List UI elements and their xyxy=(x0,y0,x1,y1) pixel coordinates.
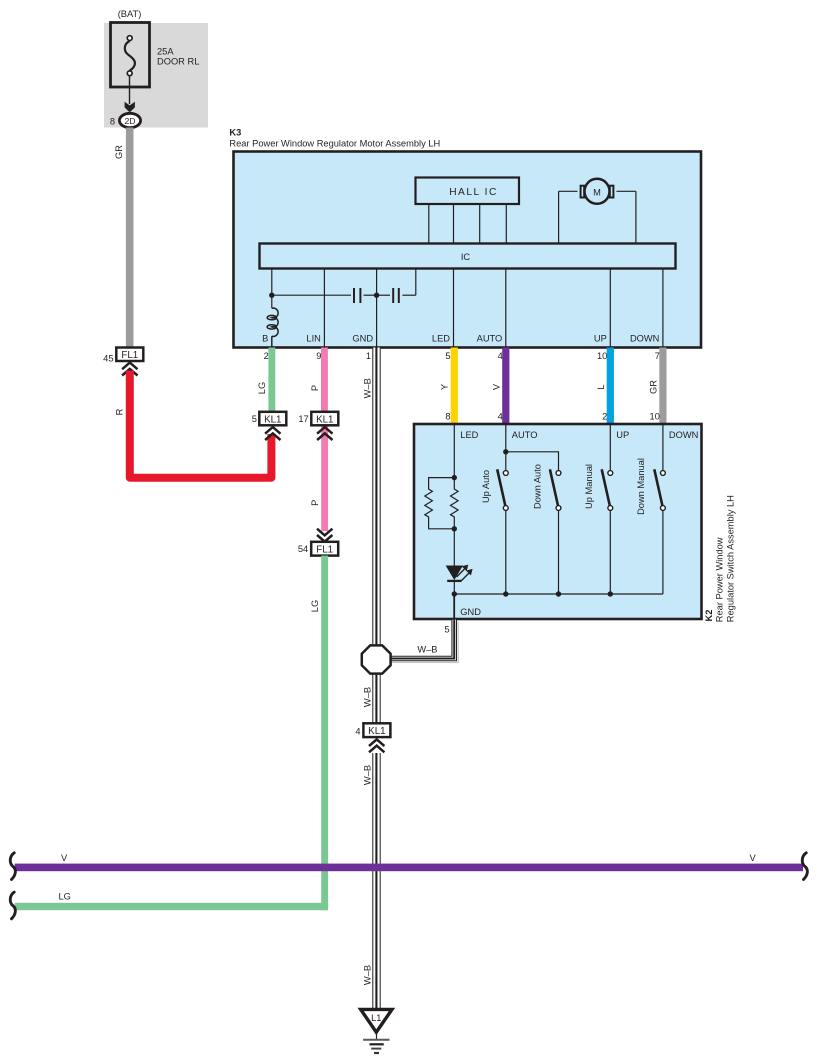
wire Up Manual to bus xyxy=(609,510,611,594)
wire R red xyxy=(130,371,272,478)
wire to Down Auto xyxy=(506,452,559,471)
wire to LED xyxy=(453,529,455,566)
wire LG vertical long xyxy=(321,556,328,911)
switch Up Manual xyxy=(602,469,613,510)
junction dot xyxy=(452,591,457,596)
hall sensor leads xyxy=(429,204,507,244)
wire GR gray stub xyxy=(659,348,666,425)
svg-text:DOWN: DOWN xyxy=(669,430,698,440)
svg-text:Down Auto: Down Auto xyxy=(533,464,543,509)
svg-text:45: 45 xyxy=(103,354,113,364)
junction dot xyxy=(452,526,457,531)
connector KL1 pin 17 xyxy=(298,412,338,426)
svg-text:GND: GND xyxy=(352,334,373,344)
svg-text:17: 17 xyxy=(298,414,308,424)
DOWN branch wire xyxy=(662,424,664,471)
svg-text:V: V xyxy=(750,853,757,863)
fuse 25A DOOR RL xyxy=(111,23,200,88)
wire L blue xyxy=(607,348,614,425)
svg-text:FL1: FL1 xyxy=(316,545,333,556)
HALL IC box xyxy=(416,178,520,205)
UP branch wire xyxy=(609,424,611,471)
junction dot B xyxy=(269,293,274,298)
wire GR gray xyxy=(126,128,134,348)
svg-text:9: 9 xyxy=(316,351,321,361)
svg-text:FL1: FL1 xyxy=(121,350,138,361)
svg-text:Y: Y xyxy=(440,384,450,390)
branch chevrons under KL1 pin5 xyxy=(265,427,280,440)
wire P stub LIN to KL1 xyxy=(321,348,328,413)
LED branch wire xyxy=(453,424,455,478)
svg-text:2: 2 xyxy=(264,351,269,361)
svg-text:P: P xyxy=(310,500,320,506)
svg-text:GR: GR xyxy=(114,145,124,159)
svg-text:4: 4 xyxy=(498,412,503,422)
svg-text:W–B: W–B xyxy=(363,965,373,985)
wire P mid pink xyxy=(321,426,328,531)
svg-text:5: 5 xyxy=(252,414,257,424)
ground L1 xyxy=(361,1009,392,1053)
svg-text:UP: UP xyxy=(594,334,607,344)
break squiggle V left xyxy=(10,853,15,880)
svg-text:DOOR RL: DOOR RL xyxy=(157,56,199,66)
svg-text:UP: UP xyxy=(616,430,629,440)
pin line UP xyxy=(609,269,611,348)
ECU K3 box xyxy=(234,152,702,348)
svg-text:LED: LED xyxy=(460,430,478,440)
ground bus in K2 xyxy=(454,593,663,595)
svg-text:5: 5 xyxy=(445,351,450,361)
branch chevrons under KL1 pin17 xyxy=(317,427,332,440)
svg-text:W–B: W–B xyxy=(363,378,373,398)
svg-text:25A: 25A xyxy=(157,46,174,56)
wire V violet xyxy=(502,348,509,425)
wire LED to bus xyxy=(453,581,455,594)
inductor coil on B line xyxy=(267,308,278,347)
noise filter wire to C1 xyxy=(272,294,351,296)
wire W-B spur K2 to octagon gray shadow xyxy=(392,622,459,663)
svg-text:LG: LG xyxy=(310,600,320,612)
connector 2D xyxy=(119,113,140,127)
pin line LED xyxy=(453,269,455,348)
IC box xyxy=(260,244,676,269)
svg-text:Regulator Switch Assembly LH: Regulator Switch Assembly LH xyxy=(726,495,736,622)
svg-text:Down Manual: Down Manual xyxy=(636,458,646,515)
svg-text:GR: GR xyxy=(648,380,658,394)
wire Down Manual to bus xyxy=(662,510,664,594)
wire LG horizontal bus xyxy=(15,903,328,910)
branch chevrons under KL1 pin4 xyxy=(369,739,384,752)
wire fuse to 2D with arrow xyxy=(125,76,135,113)
svg-text:Up Auto: Up Auto xyxy=(481,470,491,503)
svg-text:L1: L1 xyxy=(371,1013,381,1023)
svg-text:4: 4 xyxy=(498,351,503,361)
wire C2 up to IC xyxy=(415,269,417,296)
junction octagon xyxy=(362,645,391,673)
svg-text:10: 10 xyxy=(650,412,660,422)
connector FL1 pin 45 xyxy=(103,348,143,364)
pin line B xyxy=(271,269,273,309)
svg-text:8: 8 xyxy=(110,117,115,127)
svg-text:V: V xyxy=(491,383,501,390)
svg-text:7: 7 xyxy=(655,351,660,361)
junction dot xyxy=(503,449,508,454)
switch Down Auto xyxy=(550,469,561,510)
resistor R-left xyxy=(425,478,455,529)
connector KL1 pin 4 xyxy=(355,723,390,737)
svg-text:KL1: KL1 xyxy=(368,726,385,737)
svg-text:B: B xyxy=(262,334,268,344)
pin line GND xyxy=(376,269,378,348)
pin line DOWN xyxy=(662,269,664,348)
svg-text:Rear Power Window Regulator Mo: Rear Power Window Regulator Motor Assemb… xyxy=(229,139,440,149)
K2 side label xyxy=(704,495,736,622)
wire Down Auto to bus xyxy=(558,510,560,594)
svg-text:GND: GND xyxy=(460,607,481,617)
junction dot xyxy=(556,591,561,596)
wire LG stub B to KL1 xyxy=(268,348,275,413)
svg-text:AUTO: AUTO xyxy=(512,430,538,440)
svg-text:KL1: KL1 xyxy=(316,415,333,426)
svg-text:1: 1 xyxy=(366,351,371,361)
junction dot GND xyxy=(374,293,379,298)
junction dot xyxy=(452,475,457,480)
resistor R-right xyxy=(451,478,459,529)
svg-text:LIN: LIN xyxy=(306,334,320,344)
svg-text:W–B: W–B xyxy=(417,645,437,655)
svg-text:2: 2 xyxy=(602,412,607,422)
AUTO branch wire xyxy=(505,424,507,471)
svg-text:HALL IC: HALL IC xyxy=(449,187,498,198)
switch Down Manual xyxy=(654,469,665,510)
svg-text:K2: K2 xyxy=(704,610,714,622)
svg-text:L: L xyxy=(596,384,606,389)
pin line AUTO xyxy=(505,269,507,348)
junction dot xyxy=(608,591,613,596)
svg-text:DOWN: DOWN xyxy=(630,334,659,344)
wire W-B main vertical xyxy=(372,348,380,1010)
svg-text:W–B: W–B xyxy=(363,765,373,785)
svg-text:8: 8 xyxy=(445,412,450,422)
switch Up Auto xyxy=(497,469,508,510)
svg-text:K3: K3 xyxy=(229,128,241,138)
LED D1 xyxy=(446,565,473,582)
svg-text:(BAT): (BAT) xyxy=(118,9,142,19)
svg-text:W–B: W–B xyxy=(363,687,373,707)
branch chevrons above FL1 pin54 pointing down xyxy=(317,529,332,542)
break squiggle LG left xyxy=(10,892,15,919)
svg-text:M: M xyxy=(593,187,601,197)
svg-text:Up Manual: Up Manual xyxy=(584,464,594,509)
pin line LIN xyxy=(323,269,325,348)
svg-text:R: R xyxy=(114,408,124,415)
branch chevrons under FL1 xyxy=(122,363,137,376)
svg-text:10: 10 xyxy=(597,351,607,361)
svg-text:54: 54 xyxy=(298,544,308,554)
svg-text:KL1: KL1 xyxy=(264,415,281,426)
connector KL1 pin 5 xyxy=(252,412,287,426)
wire GND pin to box edge xyxy=(453,594,455,620)
break squiggle V right xyxy=(802,853,807,880)
wire V violet bus xyxy=(15,864,803,872)
switch assembly K2 box xyxy=(414,424,702,619)
junction dot xyxy=(503,591,508,596)
svg-text:IC: IC xyxy=(461,252,471,262)
connector FL1 pin 54 xyxy=(298,542,338,556)
svg-text:LG: LG xyxy=(59,892,71,902)
svg-text:P: P xyxy=(310,385,320,391)
wire Up Auto to bus xyxy=(505,510,507,594)
svg-text:LG: LG xyxy=(257,382,267,394)
junction block shading panel xyxy=(104,23,208,128)
capacitor C2 xyxy=(377,288,416,303)
wire Y yellow xyxy=(451,348,458,425)
svg-text:AUTO: AUTO xyxy=(477,334,503,344)
svg-text:Rear Power Window: Rear Power Window xyxy=(714,537,724,622)
svg-text:2D: 2D xyxy=(125,116,136,126)
motor M xyxy=(559,179,636,244)
svg-text:4: 4 xyxy=(355,727,360,737)
svg-text:5: 5 xyxy=(444,625,449,635)
capacitor C1 xyxy=(354,288,377,303)
svg-text:V: V xyxy=(61,853,68,863)
wire W-B spur K2 to octagon xyxy=(391,620,455,659)
svg-text:LED: LED xyxy=(432,334,450,344)
